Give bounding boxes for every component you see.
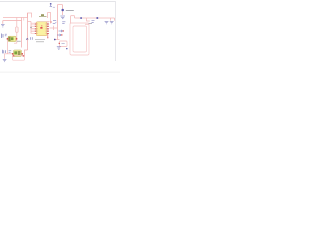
wire: module top left vertical [70, 16, 72, 23]
wire: right net drop 1 [110, 18, 112, 21]
junction dot on net [96, 17, 98, 19]
wire: pin branch y28 [50, 27, 58, 29]
net arrow 2 [57, 34, 61, 36]
wire: R1 to LED pin [16, 32, 18, 38]
label text smudge [17, 40, 21, 42]
wire: riser to y13 [28, 13, 32, 18]
junction dot [30, 27, 31, 28]
B1 courtyard corner pads [13, 55, 15, 56]
connector J2 small box [60, 41, 68, 47]
node A junction dot [26, 38, 28, 40]
label R3 value text [35, 40, 45, 42]
label L2 [1, 34, 3, 39]
B1 pins [12, 53, 14, 55]
wire: C2 left drop [7, 40, 9, 54]
IC pin numbers left [36, 23, 39, 34]
C2 pins [7, 38, 9, 40]
resistor R1 [16, 27, 19, 32]
wire: left pin feeder vertical x31 [30, 22, 32, 34]
net arrow 1 [59, 30, 63, 32]
ground GND4 [105, 21, 109, 24]
wire: under C2 [14, 40, 17, 43]
junction dot [54, 39, 56, 41]
capacitor C2 body [8, 36, 16, 41]
wire: IC bottom pin drop [47, 34, 49, 38]
wire: module top horizontal [71, 15, 75, 17]
component D1 (blue flag on x62.5) [61, 9, 64, 12]
IC pin numbers right [45, 23, 48, 34]
wire: long vertical x57.5 [57, 5, 59, 40]
ground GND2 [60, 16, 65, 19]
wire: long right net y17.5 [75, 17, 115, 19]
IC U1 right pins [47, 23, 49, 33]
buzzer B1 body [14, 50, 22, 57]
label net name [66, 10, 74, 12]
wire: bottom branch y39.5 [55, 39, 60, 41]
wire: top-left bus upper [3, 17, 28, 19]
IC U1 left pins [35, 23, 37, 33]
wire: buzzer right feed [25, 39, 28, 56]
wire: vertical x62.5 [62, 5, 64, 16]
bottom strip [0, 72, 120, 74]
wire: right net drop 2 [114, 18, 116, 21]
wire: long vertical x27.5 [27, 13, 29, 39]
IC top-right corner mark [47, 20, 50, 22]
junction dot small [66, 48, 68, 50]
IC U1 label [40, 27, 42, 29]
sheet top border [0, 1, 116, 2]
label text block left [2, 50, 5, 54]
wire: short vertical x53.5 [53, 26, 55, 30]
capacitor C1 top [39, 16, 47, 18]
wire: buzzer left lead [4, 54, 6, 59]
ground GND1 [1, 25, 5, 28]
label GND text [62, 22, 65, 24]
net label text right [31, 37, 33, 40]
wire: top-left bus lower [3, 20, 22, 22]
IC U1 body [36, 22, 47, 36]
ground GND5 [110, 21, 114, 24]
ground GND3 [57, 47, 61, 49]
background [0, 0, 120, 73]
module outline M1 inner [73, 26, 87, 52]
net label left [92, 21, 95, 23]
module pin stub [85, 23, 89, 25]
wire: feeder stubs to IC left pins [31, 23, 35, 33]
pin tick near flag [50, 21, 52, 23]
B1 courtyard outline [13, 56, 25, 61]
wire: bus tick 3 [23, 18, 25, 21]
net flag right of IC top [53, 20, 57, 23]
module label [89, 23, 92, 25]
module outline M1 outer [70, 23, 89, 55]
wire: right of C1 [47, 13, 49, 19]
wire: y21.5 link [28, 21, 32, 23]
ground GND6 [3, 59, 7, 61]
power flag F1 [50, 3, 52, 5]
wire: top net to x57.5 and x62.5 [58, 4, 63, 6]
wire: buzzer left lead horizontal [5, 53, 13, 55]
wire: vertical x21.5 [21, 18, 23, 48]
wire: drop to resistor R1 [16, 18, 18, 28]
sheet right border [115, 1, 116, 61]
wire: step down to net line [74, 16, 76, 18]
wire: bus left end drop [2, 21, 4, 24]
